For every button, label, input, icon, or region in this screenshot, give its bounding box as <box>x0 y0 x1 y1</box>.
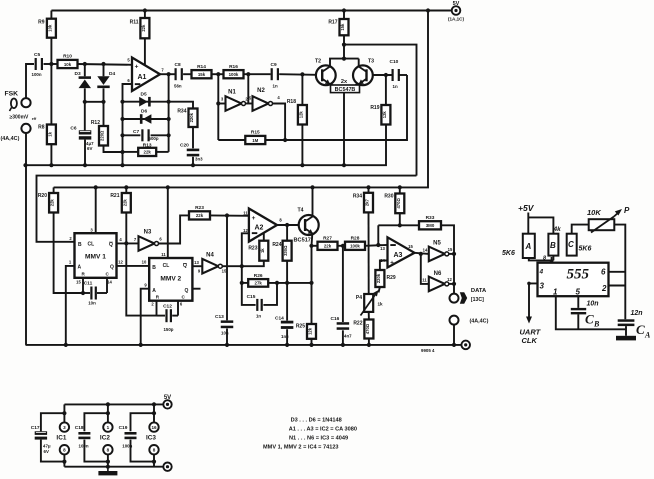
svg-text:C20: C20 <box>180 143 189 149</box>
junction rail r8 <box>49 163 53 167</box>
svg-text:N1: N1 <box>228 90 236 96</box>
wire collector feed right <box>344 45 417 176</box>
junction A1 out j <box>167 72 171 76</box>
junction C17 t2 <box>62 460 66 464</box>
wire R16 to C9 <box>244 73 271 75</box>
wire 5V top rail <box>51 10 451 12</box>
diode D6 <box>140 109 152 124</box>
svg-text:4: 4 <box>539 269 544 276</box>
junction input bias <box>49 62 53 66</box>
svg-text:B: B <box>593 320 600 329</box>
resistor R29 <box>375 270 395 287</box>
junction n6 out j <box>452 282 456 286</box>
svg-text:R34: R34 <box>177 109 186 115</box>
IC label IC3 <box>146 434 156 441</box>
capacitor C19 <box>125 432 137 439</box>
svg-text:10n: 10n <box>587 301 599 308</box>
svg-text:R9: R9 <box>38 20 45 26</box>
svg-text:R18: R18 <box>287 99 296 105</box>
wire R34b stub <box>368 187 370 192</box>
wire data column <box>453 254 455 294</box>
junction C18 t1 <box>106 411 110 415</box>
wire R11 to A1 <box>144 38 146 65</box>
svg-text:R23: R23 <box>248 246 257 252</box>
junction C17 t1 <box>62 411 66 415</box>
svg-text:4k: 4k <box>553 226 562 233</box>
svg-text:A3: A3 <box>394 252 403 259</box>
wire C15 loop <box>242 283 256 305</box>
wire N4 out <box>222 265 242 267</box>
junction a3 fb j <box>376 243 380 247</box>
junction br r22 <box>367 343 371 347</box>
svg-text:Q: Q <box>110 265 114 271</box>
monostable MMV2 <box>149 258 192 301</box>
capacitor CB 10n <box>571 296 600 329</box>
svg-text:15: 15 <box>408 244 413 249</box>
junction r26 rj <box>275 281 279 285</box>
junction br 4a4c <box>452 343 456 347</box>
wire C19 loop2 <box>131 440 155 462</box>
junction 5V feed <box>426 8 430 12</box>
junction R17 top <box>342 8 346 12</box>
svg-text:R34: R34 <box>353 194 362 200</box>
svg-text:N4: N4 <box>206 253 214 259</box>
svg-text:8: 8 <box>63 448 66 453</box>
junction n5 out j <box>452 252 456 256</box>
resistor R34 220k <box>177 109 197 128</box>
svg-text:C17: C17 <box>31 425 40 431</box>
resistor R27 <box>318 236 338 250</box>
junction r30 r33 j <box>398 223 402 227</box>
junction rail c6 <box>83 163 87 167</box>
svg-text:C: C <box>585 312 594 327</box>
wire C19 loop <box>131 413 155 431</box>
svg-text:1n: 1n <box>273 84 278 89</box>
wire T3 base wire <box>373 74 394 76</box>
svg-text:10: 10 <box>142 260 147 265</box>
wire N2 out <box>272 104 285 141</box>
svg-text:MMV 1, MMV 2 = IC4 = 74123: MMV 1, MMV 2 = IC4 = 74123 <box>263 445 339 451</box>
terminal DATA <box>450 294 459 303</box>
svg-text:2k7: 2k7 <box>365 198 370 206</box>
diode D4 <box>97 71 115 88</box>
wire T3 collector <box>358 59 360 67</box>
junction r15 j <box>283 138 287 142</box>
svg-text:R22: R22 <box>353 321 362 327</box>
svg-text:+: + <box>135 63 139 70</box>
wire MMV1 Q4 to N3 <box>117 242 139 244</box>
wire R24 to C14 <box>286 261 288 321</box>
svg-text:C12: C12 <box>163 304 172 310</box>
wire MMV2 A9 <box>141 289 150 345</box>
svg-text:N2: N2 <box>257 88 265 94</box>
wire R23 to A2 <box>210 214 249 216</box>
wire ic rail bottom <box>64 466 163 468</box>
svg-text:13: 13 <box>380 246 385 251</box>
IC label IC1 <box>56 434 66 441</box>
svg-text:C19: C19 <box>119 425 128 431</box>
wire pair tail <box>343 93 345 166</box>
junction inv d6 <box>120 117 124 121</box>
wire N6 feed <box>421 254 429 284</box>
svg-text:FSK: FSK <box>5 91 19 98</box>
svg-text:R13: R13 <box>143 143 152 149</box>
svg-text:220k: 220k <box>376 273 381 283</box>
svg-text:1M: 1M <box>252 138 258 143</box>
junction br r25 <box>309 343 313 347</box>
svg-text:D5: D5 <box>141 92 147 98</box>
wire R33 to N5out <box>441 225 454 254</box>
wire FSK to C5 <box>26 64 34 98</box>
wire bottom rail <box>26 344 462 346</box>
junction inv r13 <box>120 150 124 154</box>
svg-text:(1A,1C): (1A,1C) <box>448 17 465 22</box>
svg-text:A1: A1 <box>138 74 147 81</box>
svg-text:C14: C14 <box>275 316 284 322</box>
wire collector line left <box>37 176 417 242</box>
junction icr3 <box>152 402 156 406</box>
svg-text:5V: 5V <box>164 395 171 401</box>
junction c16 tap <box>341 244 345 248</box>
svg-text:A1 . . . A3 = IC2 = CA 3080: A1 . . . A3 = IC2 = CA 3080 <box>289 427 357 433</box>
wire c11 wr <box>97 292 107 294</box>
op-amp A1 <box>127 58 164 92</box>
svg-text:T2: T2 <box>315 59 321 65</box>
junction br mmv2a <box>139 343 143 347</box>
wire A2 inv column <box>242 233 249 283</box>
label FSK <box>5 91 19 98</box>
wire R30 bottom <box>399 213 401 225</box>
svg-text:B: B <box>550 241 556 250</box>
svg-text:eff: eff <box>32 117 37 121</box>
svg-text:R27: R27 <box>323 236 332 242</box>
wire C9 to T2 <box>279 73 316 76</box>
capacitor C13 <box>215 314 233 336</box>
junction br c16 <box>341 343 345 347</box>
junction rail r13 <box>120 163 124 167</box>
junction D4 tap <box>101 62 105 66</box>
pin circle IC2 top <box>103 422 112 431</box>
svg-text:R17: R17 <box>328 20 337 26</box>
svg-text:1: 1 <box>107 425 110 430</box>
resistor R33 <box>419 215 441 229</box>
label C17 <box>31 425 51 454</box>
pin circle IC3 top <box>149 422 158 431</box>
svg-text:R30: R30 <box>384 194 393 200</box>
svg-text:22k: 22k <box>324 244 332 249</box>
svg-text:5K6: 5K6 <box>502 250 515 257</box>
svg-text:500p: 500p <box>149 136 159 141</box>
junction t4 r26 j <box>309 281 313 285</box>
junction c11 j <box>81 291 85 295</box>
wire R33 row <box>378 224 419 226</box>
svg-text:15: 15 <box>448 247 453 252</box>
wire A3 out <box>415 253 429 254</box>
svg-text:R12: R12 <box>91 120 100 126</box>
svg-text:MMV 2: MMV 2 <box>160 276 181 283</box>
wire C6 to rail <box>84 140 86 166</box>
wire MMV2 CL <box>167 187 169 258</box>
wire MMV1 CL <box>95 187 97 233</box>
junction rail c20 <box>191 163 195 167</box>
svg-text:12k: 12k <box>382 111 387 119</box>
svg-text:100n: 100n <box>122 443 132 448</box>
capacitor C17 <box>35 431 47 439</box>
svg-text:R10: R10 <box>63 54 72 60</box>
resistor R24 <box>272 241 291 261</box>
junction t4 r27 j <box>309 244 313 248</box>
junction n1 in j <box>216 101 220 105</box>
svg-text:D4: D4 <box>109 71 115 77</box>
resistor R19 <box>370 105 390 125</box>
svg-text:12: 12 <box>243 228 248 233</box>
svg-text:R26: R26 <box>254 273 263 279</box>
wire R18 leads <box>301 74 303 105</box>
inverter N3 <box>139 230 159 251</box>
wire A1 inv loop <box>123 84 133 165</box>
wire R8 to rail <box>50 144 52 165</box>
svg-text:330Ω: 330Ω <box>283 245 288 256</box>
svg-text:R14: R14 <box>197 64 206 70</box>
svg-text:A2: A2 <box>255 225 264 232</box>
wire R13 row R <box>156 151 168 153</box>
junction T3 base j <box>384 73 388 77</box>
wire IC1 top <box>63 404 65 422</box>
capacitor C5 <box>32 52 44 77</box>
svg-text:555: 555 <box>567 267 590 283</box>
svg-text:N3: N3 <box>144 230 152 236</box>
terminal FSK input <box>21 98 30 107</box>
wire fb right column <box>168 74 170 152</box>
svg-text:D6: D6 <box>141 109 147 115</box>
wire R34 to C20 <box>192 127 194 148</box>
wire A3 plus wire <box>380 261 388 271</box>
svg-text:3n3: 3n3 <box>195 157 203 162</box>
junction n5n6 j <box>419 252 423 256</box>
diode D3 <box>75 71 92 88</box>
resistor R9 <box>38 19 56 38</box>
wire 5V down column <box>54 11 428 188</box>
wire N1 input column <box>217 74 219 140</box>
svg-text:6V: 6V <box>44 449 49 454</box>
svg-text:12k: 12k <box>308 327 313 335</box>
terminal bottom rail <box>461 341 470 350</box>
wire N5 out <box>449 253 454 255</box>
wire MMV2 Q stub <box>192 288 200 290</box>
potentiometer 10K P <box>587 206 630 233</box>
wire 555 supply branch <box>528 217 553 233</box>
svg-text:P4: P4 <box>356 295 362 301</box>
capacitor C16 <box>331 316 353 339</box>
resistor R10 <box>58 54 78 68</box>
wire R13 row L <box>123 151 139 153</box>
svg-text:MMV 1: MMV 1 <box>85 253 106 260</box>
svg-text:(4A,4C): (4A,4C) <box>1 136 20 142</box>
resistor R15 <box>245 130 265 144</box>
pin circle IC3 bottom <box>149 445 158 454</box>
svg-text:12: 12 <box>118 260 123 265</box>
svg-text:C7: C7 <box>133 129 139 135</box>
svg-text:IC2: IC2 <box>100 434 110 441</box>
junction n1n2 tap <box>246 72 250 76</box>
resistor A 5K6 <box>502 234 535 258</box>
label +5V 555 <box>518 203 535 213</box>
wire C7 row L <box>123 134 141 136</box>
wire clip join <box>85 101 104 103</box>
capacitor C6 <box>70 125 94 151</box>
pin circle IC1 top <box>60 422 69 431</box>
junction R18 tap <box>300 72 304 76</box>
wire C16 to rail <box>342 330 344 345</box>
wire R22 to rail <box>368 339 370 345</box>
wire C17 loop2 <box>41 440 65 462</box>
svg-text:B: B <box>78 242 82 248</box>
svg-text:C13: C13 <box>215 314 224 320</box>
svg-text:8: 8 <box>107 448 110 453</box>
wire D3 bottom <box>84 88 86 130</box>
inverter N5 <box>429 240 449 261</box>
svg-text:N5: N5 <box>433 240 441 246</box>
junction br c13 <box>225 343 229 347</box>
svg-text:6V: 6V <box>87 146 92 151</box>
svg-text:IC1: IC1 <box>56 434 66 441</box>
resistor R21 <box>110 193 130 213</box>
wire A2 out <box>277 224 299 226</box>
wire C18 loop2 <box>84 440 108 462</box>
svg-text:3: 3 <box>63 425 66 430</box>
svg-text:22k: 22k <box>141 24 146 32</box>
wire common rail <box>26 125 387 166</box>
resistor R17 <box>328 19 348 35</box>
svg-text:11: 11 <box>422 278 427 283</box>
svg-text:15k: 15k <box>340 23 345 31</box>
svg-text:C: C <box>636 322 645 337</box>
resistor R26 <box>248 273 268 287</box>
capacitor C20 <box>180 143 203 162</box>
wire P4 to R22 <box>368 312 370 320</box>
svg-text:B: B <box>152 265 156 271</box>
junction r21 n3 j <box>124 241 128 245</box>
svg-text:A: A <box>644 331 651 340</box>
junction rail r21 <box>124 185 128 189</box>
capacitor C11 <box>84 281 97 306</box>
junction emitters R17 <box>342 57 346 61</box>
wire R21 bottom <box>126 213 156 316</box>
svg-text:220Ω: 220Ω <box>100 130 105 141</box>
resistor R30 <box>384 194 404 214</box>
wire gnd terminal down <box>25 133 27 345</box>
svg-text:10k: 10k <box>47 24 52 32</box>
label C18 <box>75 425 89 449</box>
capacitor C8 <box>174 62 183 89</box>
op-amp A3 <box>380 237 414 267</box>
svg-text:8: 8 <box>153 448 156 453</box>
junction rail t4 <box>310 185 314 189</box>
svg-text:5: 5 <box>576 288 581 297</box>
svg-text:14: 14 <box>107 280 112 285</box>
svg-text:IC3: IC3 <box>146 434 156 441</box>
transistor T4 <box>298 208 319 236</box>
wire R17 to pair <box>343 35 345 58</box>
wire A1 out <box>160 73 176 75</box>
wire R34b to P4 <box>368 212 370 294</box>
svg-text:C15: C15 <box>247 294 256 300</box>
resistor R34 2k7 <box>353 193 373 213</box>
svg-text:(4A,4C): (4A,4C) <box>470 318 489 324</box>
svg-text:Q: Q <box>109 242 113 248</box>
terminal (4A,4C) right <box>450 316 489 325</box>
svg-text:C5: C5 <box>34 52 40 58</box>
svg-text:R25: R25 <box>296 324 305 330</box>
junction rail r30 <box>398 185 402 189</box>
diode D5 <box>139 92 151 107</box>
resistor R14 <box>192 64 212 78</box>
svg-text:10n: 10n <box>88 301 96 306</box>
wire mid tap <box>247 74 249 103</box>
ground symbol 555 <box>616 336 636 341</box>
wire D5 row <box>123 102 194 109</box>
wire c12 wr <box>172 315 178 317</box>
junction fb d5 <box>167 100 171 104</box>
wire R15 row <box>218 139 245 141</box>
svg-text:6: 6 <box>601 268 606 277</box>
wire R14 to R16 <box>212 73 224 75</box>
wire R17 column <box>343 11 345 20</box>
wire D6 row <box>123 118 169 120</box>
resistor R23 1k <box>248 241 268 261</box>
svg-text:C10: C10 <box>390 59 399 65</box>
wire T4 collector <box>312 187 314 216</box>
wire C13 column <box>226 216 228 321</box>
wire C5 to R10 <box>44 63 58 65</box>
wire C to pot <box>572 225 589 234</box>
wire 4a4c stub <box>453 325 455 345</box>
transistor T3 <box>353 59 374 86</box>
svg-text:C6: C6 <box>70 125 76 131</box>
svg-text:R29: R29 <box>387 275 396 281</box>
junction inv c7 <box>120 133 124 137</box>
terminal supply return <box>163 463 171 471</box>
svg-text:4n7: 4n7 <box>344 334 352 339</box>
resistor R20 <box>38 193 58 213</box>
wire IC3 top <box>153 404 155 422</box>
svg-text:T3: T3 <box>368 59 374 65</box>
wire R10 to A1 <box>78 63 133 66</box>
wire c11 wl <box>83 292 90 294</box>
wire B bottom <box>552 256 554 261</box>
junction rail t23 <box>342 163 346 167</box>
svg-text:Q: Q <box>185 288 189 294</box>
IC 555 <box>538 263 609 297</box>
capacitor C18 <box>78 432 90 439</box>
svg-text:11: 11 <box>161 252 166 257</box>
svg-text:A: A <box>78 265 82 271</box>
svg-text:14: 14 <box>423 248 428 253</box>
junction br c14 <box>285 343 289 347</box>
pin circle IC1 bottom <box>60 445 69 454</box>
junction icr2 <box>106 402 110 406</box>
svg-text:+5V: +5V <box>518 203 535 213</box>
svg-text:N6: N6 <box>434 271 442 277</box>
capacitor C15 <box>247 294 263 318</box>
capacitor C9 <box>271 62 280 89</box>
transistor T2 <box>315 59 336 86</box>
wire IC1 bottom <box>63 454 65 466</box>
svg-text:D3 . . . D6 = 1N4148: D3 . . . D6 = 1N4148 <box>291 418 342 424</box>
wire MMV2 p2 stub <box>156 301 158 316</box>
wire ic rail top <box>64 403 163 405</box>
wire N1 in stub <box>218 103 225 105</box>
